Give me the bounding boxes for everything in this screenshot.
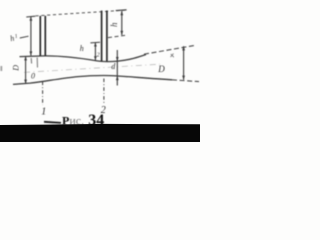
dimension d line with arrows <box>116 50 119 86</box>
label h1 with leader <box>9 33 28 43</box>
water level 2 dashed line right of tube 2 <box>108 35 126 37</box>
axis dash-dot line 0-0 <box>24 64 160 72</box>
caption artifact line <box>44 122 61 123</box>
dimension h1 line with arrows <box>30 17 33 56</box>
dimension D left line with arrows <box>24 56 27 84</box>
dimension D right line with arrows <box>182 46 185 80</box>
svg-text:1: 1 <box>41 107 46 118</box>
level-1 extension tick <box>26 15 35 18</box>
piezometer tube 1 right wall <box>44 16 46 56</box>
stray mark right <box>171 54 174 58</box>
artifact stroke inside pipe left <box>36 58 38 68</box>
section line 1 (dash-dot) <box>42 82 44 106</box>
level-2 extension tick left <box>90 41 100 44</box>
section line 2 (dash-dot) <box>103 79 105 104</box>
svg-text:h: h <box>109 22 119 27</box>
piezometer tube 2 left wall <box>101 11 103 62</box>
svg-text:D: D <box>157 64 165 74</box>
artifact blob below h1 line <box>30 58 32 64</box>
dimension h line with arrows <box>120 11 123 35</box>
pipe bottom edge <box>13 76 172 85</box>
svg-text:h: h <box>80 44 84 53</box>
svg-text:D: D <box>11 65 20 72</box>
piezometer tube 1 left wall <box>39 16 41 56</box>
svg-text:0: 0 <box>31 71 35 80</box>
water level 1 dashed line <box>36 10 127 16</box>
black bar bottom <box>0 124 200 142</box>
dimension h2 line with arrows <box>94 43 97 61</box>
pipe top edge dashed right continuation <box>144 45 196 54</box>
piezometer tube 2 right wall <box>106 11 108 62</box>
svg-text:2: 2 <box>97 53 100 59</box>
label h2 <box>80 44 100 59</box>
left edge speck <box>0 66 2 71</box>
pipe top edge (venturi, left section to throat to diverging cone) <box>20 55 147 62</box>
pipe bottom edge dashed right continuation <box>172 80 199 82</box>
h top extension tick <box>116 9 127 12</box>
